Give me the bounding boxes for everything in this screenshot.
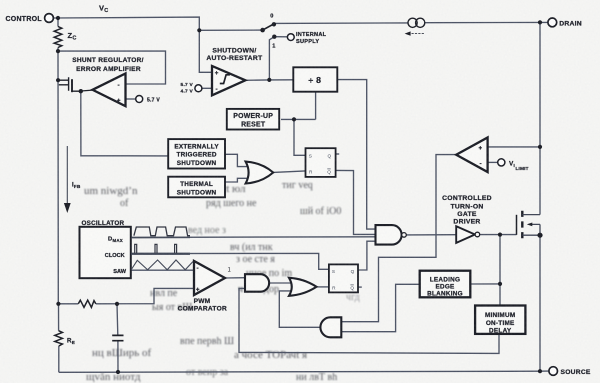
terminal 5.7V reference bbox=[136, 96, 143, 103]
comparator PWM bbox=[194, 261, 225, 295]
junction at RE top node bbox=[56, 302, 60, 306]
wire capacitor branch bbox=[117, 304, 118, 372]
latch U3 (PWM latch) bbox=[329, 264, 358, 292]
resistor ZC bbox=[54, 27, 62, 48]
shunt regulator mosfet Q1 bbox=[58, 77, 69, 90]
wire bottom rail to SOURCE bbox=[59, 371, 549, 372]
wire AND2 output to OR2 lower input bbox=[279, 291, 320, 327]
wire min-delay return to AND1 lower input bbox=[239, 288, 499, 353]
junction at shunt mosfet gate tap bbox=[56, 78, 60, 82]
wire OR1 output to latch U2 R input bbox=[273, 171, 305, 173]
power mosfet output Q2 bbox=[516, 215, 518, 235]
wire OR2 output to latch U3 R input bbox=[317, 286, 329, 288]
wire smudge CLOCK bbox=[131, 253, 190, 255]
wire LEB input from AND2 bbox=[341, 284, 419, 331]
block thermal shutdown bbox=[168, 177, 225, 198]
block minimum on-time delay bbox=[475, 306, 525, 334]
op-amp shunt regulator / error amplifier bbox=[93, 74, 126, 107]
terminal CONTROL bbox=[45, 14, 54, 23]
current source arrow bbox=[410, 33, 424, 35]
wire latch U3 Qbar stub bbox=[358, 286, 362, 288]
hysteresis symbol bbox=[220, 75, 230, 84]
wire NAND output to gate driver bbox=[406, 234, 456, 236]
terminal SOURCE bbox=[549, 367, 558, 376]
wire switch pole 1 to divide8 input bbox=[269, 37, 273, 80]
wire ext-shutdown to OR1 bbox=[225, 154, 247, 166]
wire 5.7V stub to shunt plus input bbox=[126, 98, 136, 100]
terminal INTERNAL SUPPLY bbox=[287, 34, 294, 41]
wire latch U2 Q stub bbox=[336, 153, 340, 155]
wire left control rail bbox=[57, 18, 60, 372]
wire thermal-shutdown to OR1 bbox=[225, 178, 247, 182]
junction at DRAIN node bbox=[538, 20, 542, 24]
wire shutdown comparator output to divide8 bbox=[245, 79, 293, 82]
wire amp output down to ext-shutdown input bbox=[81, 91, 168, 156]
capacitor feedback (unlabelled) bbox=[112, 335, 123, 340]
block oscillator bbox=[80, 227, 131, 278]
junction at CONTROL node bbox=[56, 16, 60, 20]
wire AND1 output to OR2 bbox=[269, 282, 293, 284]
junction at filter cap bottom bbox=[116, 370, 120, 374]
junction at gate drive node bbox=[498, 233, 502, 237]
wire feedback line to PWM plus input bbox=[58, 288, 194, 303]
current source (drain supply) bbox=[408, 18, 425, 27]
junction at LEB output node bbox=[498, 282, 502, 286]
wire latch U2 Qbar to NAND input 2 bbox=[336, 170, 376, 234]
junction at divide8 input bbox=[267, 78, 271, 82]
waveform SAW tooth bbox=[131, 260, 193, 270]
wire shutdown comparator minus stub bbox=[202, 87, 212, 89]
wire divide8 output to NAND input 1 bbox=[337, 80, 375, 230]
wire current limit comparator output to AND2 bbox=[341, 155, 456, 322]
waveform DMAX square wave bbox=[134, 227, 190, 236]
block leading edge blanking bbox=[420, 271, 471, 298]
NAND gate U4 bbox=[376, 225, 402, 245]
block divide by 8 bbox=[293, 67, 337, 91]
wire PWM output to AND1 bbox=[225, 277, 245, 279]
terminal V-ILIMIT reference bbox=[498, 159, 505, 166]
block externally triggered shutdown bbox=[168, 139, 225, 168]
block power-up reset bbox=[227, 109, 279, 130]
resistor feedback (unlabelled) bbox=[78, 300, 96, 307]
junction at filter cap top bbox=[115, 302, 119, 306]
AND gate U6 (blanking and, points left) bbox=[320, 317, 341, 337]
wire drain vertical bbox=[539, 22, 541, 214]
AND gate U5 (PWM and) bbox=[245, 274, 269, 292]
waveform CLOCK pulses bbox=[135, 244, 177, 253]
inverter controlled turn-on gate driver bbox=[456, 226, 475, 243]
wire DMAX line to NAND input 3 bbox=[131, 236, 376, 239]
latch U2 (shutdown latch) bbox=[306, 148, 336, 177]
wire internal supply stub bbox=[274, 36, 287, 38]
wire shunt box top and minus input bbox=[58, 51, 166, 84]
OR gate U8 (latch reset or) bbox=[289, 278, 317, 296]
wire top rail right to DRAIN bbox=[274, 22, 547, 23]
wire node to latch U2 S input bbox=[294, 119, 306, 155]
terminal 5.7V/4.7V reference bbox=[195, 85, 202, 92]
wire shutdown comparator plus input bbox=[199, 30, 212, 72]
wire current limit comparator plus input bbox=[488, 146, 540, 148]
resistor RE bbox=[55, 331, 63, 346]
wire CLOCK line to latch U3 S input bbox=[131, 253, 329, 269]
junction at SOURCE node bbox=[538, 369, 542, 373]
terminal DRAIN bbox=[548, 18, 557, 27]
junction below ZC bbox=[56, 49, 60, 53]
junction at VC rail step bbox=[197, 28, 201, 32]
OR gate U7 (shutdown or) bbox=[246, 162, 274, 184]
wire latch U3 Q to NAND input 4 bbox=[358, 241, 376, 270]
switch auto-restart (0/1) bbox=[263, 24, 274, 30]
wire power-up reset output bbox=[281, 118, 316, 120]
junction at power-up reset node bbox=[292, 117, 296, 121]
wire SAW line to PWM minus input bbox=[131, 269, 194, 271]
comparator shutdown/auto-restart bbox=[212, 66, 245, 95]
wire current limit comparator minus stub bbox=[488, 161, 498, 163]
junction at mosfet source node bbox=[537, 233, 542, 238]
wire gate driver output to MOSFET gate bbox=[480, 234, 517, 236]
junction at current limit sense tap bbox=[538, 145, 542, 149]
junction at error amp output bbox=[79, 89, 83, 93]
wire top rail VC left bbox=[53, 17, 262, 30]
wire LEB output to gate node column bbox=[470, 283, 500, 285]
comparator current limit bbox=[456, 138, 487, 173]
wire gate node down to min-delay box bbox=[499, 235, 501, 306]
wire divide8 bottom to power-up reset node bbox=[315, 92, 317, 120]
annotation IFB current arrow bbox=[66, 146, 68, 204]
wire MOSFET source down to bottom rail bbox=[539, 235, 541, 371]
